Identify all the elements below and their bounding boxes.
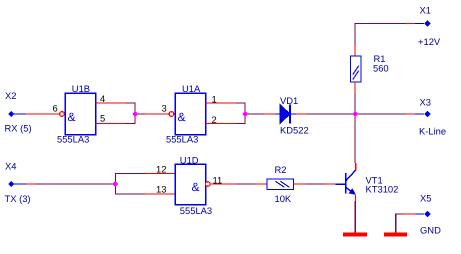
svg-text:3: 3 — [162, 103, 167, 114]
svg-text:6: 6 — [53, 103, 58, 114]
wire X4 to node TX — [26, 183, 116, 185]
svg-text:GND: GND — [420, 224, 441, 235]
terminal X2 — [8, 111, 26, 117]
svg-text:X4: X4 — [5, 161, 16, 172]
svg-text:X2: X2 — [5, 90, 16, 101]
svg-text:555LA3: 555LA3 — [57, 133, 89, 144]
svg-text:&: & — [178, 110, 186, 124]
node TX junction — [112, 181, 118, 187]
svg-text:13: 13 — [156, 184, 166, 195]
svg-text:&: & — [192, 180, 200, 194]
wire U1A loop vertical — [244, 102, 246, 124]
wire VD1 cathode to node K — [296, 113, 355, 115]
wire X1 to R1 top corner — [355, 23, 415, 57]
svg-text:+12V: +12V — [418, 36, 441, 47]
wire node K to VT1 collector — [354, 114, 357, 170]
svg-text:RX (5): RX (5) — [5, 123, 32, 134]
svg-text:K-Line: K-Line — [419, 126, 446, 137]
wire TX node vertical — [115, 173, 117, 195]
svg-text:TX (3): TX (3) — [5, 193, 31, 204]
wire U1B pin 4 loop — [96, 102, 136, 104]
wire to U1D pin 13 — [116, 193, 176, 195]
svg-text:&: & — [68, 110, 76, 124]
terminal X5 — [415, 211, 431, 217]
wire U1A pin 2 loop — [206, 123, 246, 125]
resistor R1 — [351, 56, 362, 82]
U1D output bubble pin 11 — [205, 182, 210, 187]
wire U1B pin 5 loop — [96, 123, 136, 125]
svg-text:560: 560 — [373, 63, 389, 74]
resistor R2 — [267, 179, 294, 190]
terminal X4 — [8, 181, 26, 187]
U1A output bubble pin 3 — [169, 112, 174, 117]
svg-text:U1A: U1A — [182, 83, 201, 94]
ground (X5) — [384, 233, 407, 237]
wire U1B loop vertical — [134, 102, 136, 124]
svg-text:X5: X5 — [420, 192, 431, 203]
svg-text:X3: X3 — [420, 97, 431, 108]
wire to U1D pin 12 — [116, 173, 176, 175]
node U1A output junction — [242, 111, 248, 117]
svg-text:U1D: U1D — [180, 155, 199, 166]
wire R2 to VT1 base — [294, 183, 336, 185]
svg-text:555LA3: 555LA3 — [166, 133, 198, 144]
diode VD1 — [275, 105, 296, 124]
wire U1A pin 1 loop — [206, 102, 246, 104]
gate U1D — [175, 164, 206, 205]
gate U1B — [65, 93, 96, 135]
svg-text:5: 5 — [100, 112, 105, 123]
wire VT1 emitter to ground — [354, 195, 356, 233]
svg-text:12: 12 — [156, 164, 166, 175]
wire R1 bottom to node K — [354, 82, 356, 114]
U1B output bubble pin 6 — [60, 112, 65, 117]
transistor VT1 — [336, 170, 357, 195]
svg-text:VD1: VD1 — [280, 95, 298, 106]
wire U1B node to U1A pin 3 — [135, 113, 169, 115]
svg-text:10K: 10K — [275, 193, 292, 204]
svg-text:R2: R2 — [275, 164, 287, 175]
svg-text:X1: X1 — [420, 5, 431, 16]
terminal X1 — [415, 20, 431, 26]
ground (VT1 emitter) — [343, 233, 367, 237]
svg-text:KD522: KD522 — [280, 125, 309, 136]
wire U1D pin 11 to R2 — [210, 183, 267, 185]
wire U1A node to VD1 anode — [245, 113, 275, 115]
svg-text:KT3102: KT3102 — [366, 184, 399, 195]
wire X5 to ground — [396, 213, 416, 233]
wire X2 to U1B pin 6 — [26, 113, 60, 115]
gate U1A — [175, 93, 206, 135]
node U1B output junction — [132, 111, 138, 117]
node K-Line junction — [352, 111, 358, 117]
svg-text:U1B: U1B — [72, 83, 90, 94]
terminal X3 — [415, 111, 431, 117]
wire node K to X3 — [355, 113, 416, 115]
svg-text:555LA3: 555LA3 — [180, 205, 212, 216]
